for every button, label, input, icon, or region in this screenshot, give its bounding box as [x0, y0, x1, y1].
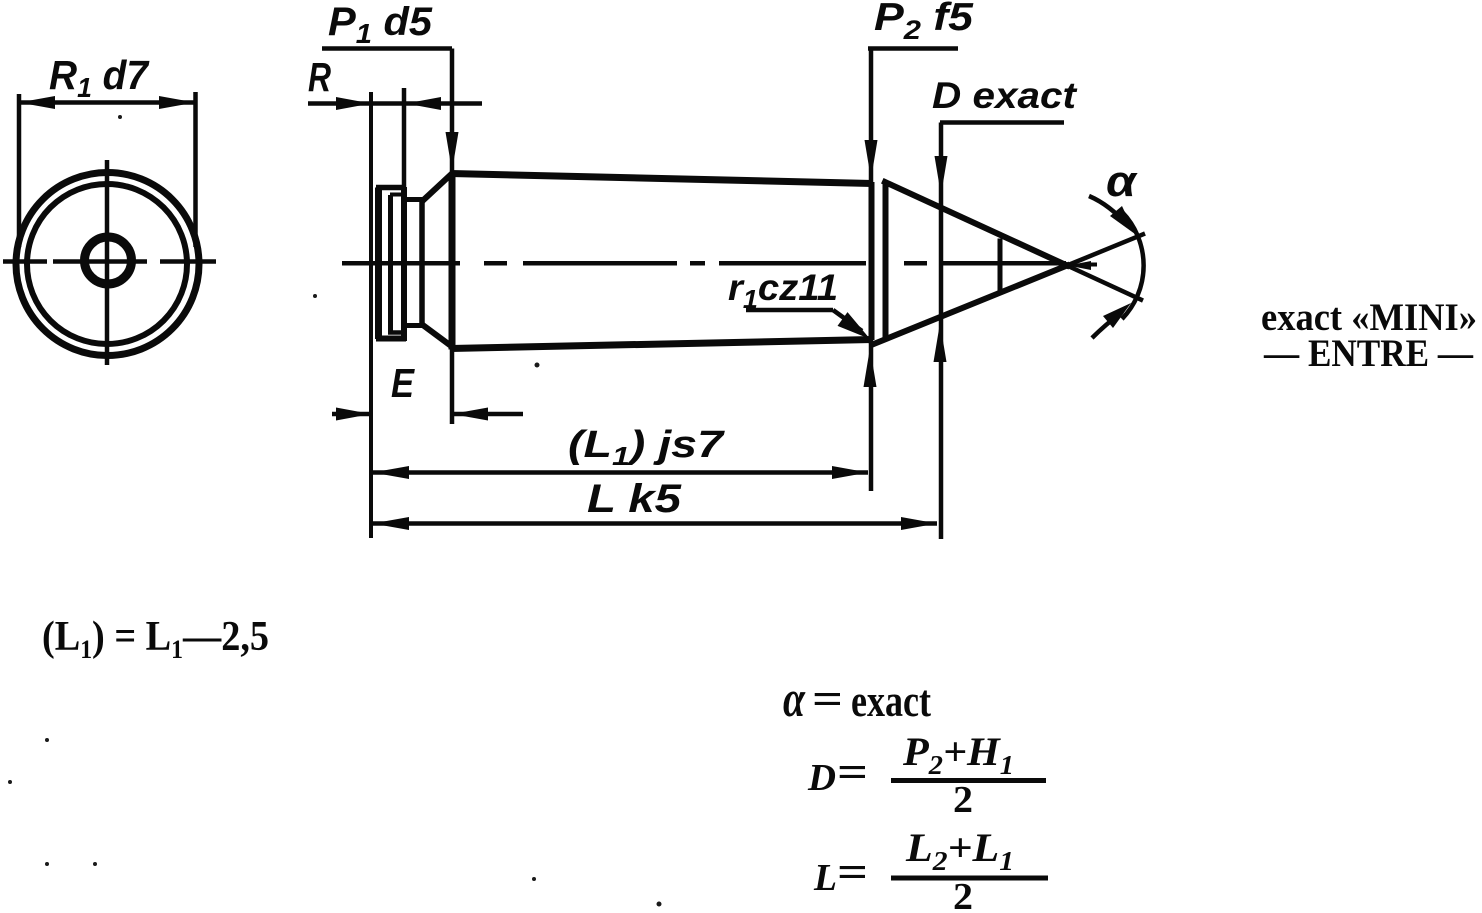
- dimension L1 line: [373, 470, 868, 475]
- dimension R arrow right: [406, 97, 441, 110]
- body left edge: [449, 173, 456, 350]
- cone bottom edge: [873, 266, 1068, 345]
- dimension L arrow right: [901, 517, 937, 530]
- dimension P2 up arrow: [864, 348, 877, 387]
- dimension P1 extension vertical: [450, 49, 455, 425]
- front view horizontal centerline: [3, 259, 216, 264]
- scan speck dots: [8, 115, 662, 907]
- tip arrow tail: [1090, 263, 1097, 267]
- extension line x371: [369, 92, 373, 538]
- dimension L1 arrow left: [373, 466, 409, 479]
- svg-text:r1cz11: r1cz11: [728, 267, 838, 314]
- dimension E arrow left: [336, 408, 371, 421]
- r1 leader arrow: [838, 312, 871, 339]
- r1 leader slant: [833, 310, 862, 331]
- dimension R1 d7 line: [19, 100, 195, 105]
- svg-text:(L1) js7: (L1) js7: [568, 424, 725, 471]
- dimension L arrow left: [373, 517, 409, 530]
- rim inner bottom edge: [388, 330, 403, 335]
- front view primer circle: [85, 237, 132, 284]
- dimension R1 d7 arrow right: [159, 96, 195, 109]
- rim inner line: [388, 195, 393, 332]
- mouth line 2: [883, 182, 889, 341]
- rim top edge: [376, 185, 406, 191]
- fraction bar D: [891, 778, 1046, 783]
- dimension R line: [308, 101, 482, 106]
- svg-text:L: L: [813, 857, 837, 899]
- svg-text:P1 d5: P1 d5: [328, 0, 433, 49]
- cone top extension: [1067, 266, 1143, 301]
- svg-text:E: E: [391, 360, 415, 406]
- shoulder taper top: [424, 174, 453, 201]
- dimension R1 d7 extension line right: [193, 92, 198, 247]
- dimension R1 d7 arrow left: [19, 96, 55, 109]
- dimension P2 down arrow: [865, 140, 878, 179]
- axis dashed centerline: [342, 261, 1066, 266]
- rim left edge: [375, 188, 382, 340]
- alpha angle arc: [1122, 212, 1144, 319]
- svg-text:P2+H1: P2+H1: [902, 729, 1014, 780]
- groove bottom edge: [405, 323, 425, 328]
- front view outer circle: [16, 173, 199, 356]
- body top edge: [451, 174, 872, 184]
- dimension R arrow left: [336, 97, 371, 110]
- alpha lower arrow: [1103, 303, 1131, 328]
- svg-text:D exact: D exact: [932, 75, 1078, 116]
- extension line x404: [402, 88, 407, 190]
- svg-text:— ENTRE —: — ENTRE —: [1263, 332, 1474, 375]
- dimension E right line: [452, 412, 523, 417]
- svg-text:(L1) = L1—2,5: (L1) = L1—2,5: [42, 614, 269, 664]
- svg-text:exact: exact: [851, 675, 932, 726]
- groove top edge: [404, 197, 425, 202]
- svg-text:P2 f5: P2 f5: [874, 0, 974, 45]
- tip arrow: [1068, 261, 1091, 270]
- svg-text:L2+L1: L2+L1: [905, 825, 1014, 876]
- dimension D extension vertical: [939, 123, 944, 540]
- meplat line: [998, 239, 1003, 294]
- dimension L1 arrow right: [832, 466, 868, 479]
- dimension E left line: [332, 412, 371, 417]
- svg-text:R: R: [308, 54, 331, 100]
- dimension E arrow right: [452, 408, 488, 421]
- rim right edge: [401, 187, 407, 341]
- svg-text:L k5: L k5: [587, 477, 682, 521]
- svg-text:=: =: [837, 848, 868, 897]
- svg-text:α: α: [783, 671, 806, 728]
- cone bottom extension: [1067, 234, 1145, 266]
- front view vertical centerline: [105, 160, 110, 365]
- svg-text:D: D: [807, 757, 836, 799]
- dimension D down arrow: [935, 156, 948, 195]
- mouth line 1: [869, 182, 875, 340]
- shoulder taper bottom: [424, 326, 451, 346]
- svg-text:=: =: [812, 675, 843, 724]
- head face vertical: [419, 200, 425, 325]
- alpha upper arrow: [1110, 206, 1135, 234]
- alpha upper leader: [1089, 196, 1128, 226]
- rim inner top edge: [390, 193, 403, 197]
- svg-text:α: α: [1106, 157, 1138, 206]
- dimension D leader line: [940, 120, 1064, 125]
- dimension L line: [373, 521, 937, 526]
- r1 leader underline: [746, 308, 833, 313]
- front view inner ring: [27, 184, 187, 344]
- dimension P1 down arrow: [446, 132, 459, 171]
- body bottom edge: [451, 340, 872, 349]
- svg-text:2: 2: [953, 779, 973, 821]
- svg-text:2: 2: [953, 876, 973, 913]
- svg-text:=: =: [837, 748, 868, 797]
- dimension P2 extension vertical: [869, 49, 874, 492]
- cone top edge: [885, 182, 1067, 266]
- dimension P2 leader line: [868, 46, 958, 51]
- dimension P1 leader line: [322, 46, 452, 51]
- dimension R1 d7 extension line left: [17, 94, 22, 247]
- fraction bar L: [891, 876, 1048, 881]
- rim bottom edge: [376, 336, 406, 342]
- alpha lower leader: [1092, 312, 1122, 338]
- dimension D up arrow: [934, 323, 947, 362]
- svg-text:R1 d7: R1 d7: [49, 52, 150, 103]
